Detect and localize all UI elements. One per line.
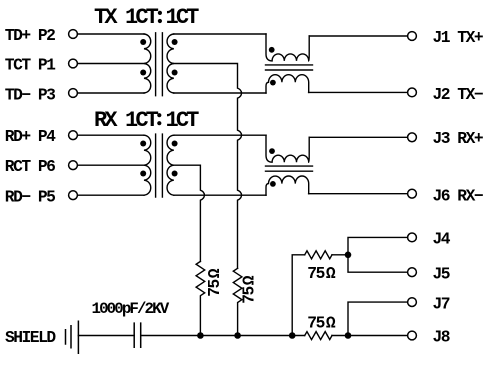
wire TX center tap down to R1 with crossover hops xyxy=(174,64,242,269)
svg-text:RX 1CT: RX 1CT xyxy=(94,108,159,133)
svg-text:J3 RX+: J3 RX+ xyxy=(433,129,483,148)
svg-text:1CT: 1CT xyxy=(166,5,200,30)
dot choke L2 top winding xyxy=(269,148,275,154)
transformer T1 primary winding xyxy=(144,34,151,93)
choke L1 core xyxy=(266,65,313,70)
wire bus node to J7 xyxy=(348,302,408,335)
terminal J8 xyxy=(408,331,417,340)
colon of TX ratio label xyxy=(158,11,162,15)
svg-text:J6 RX−: J6 RX− xyxy=(433,187,483,206)
wire R3 to J4/J5 node xyxy=(332,254,348,256)
terminal P6 xyxy=(69,161,78,170)
wire RD+ P4 to T2 primary top xyxy=(77,134,144,136)
svg-text:RD− P5: RD− P5 xyxy=(5,187,55,206)
junction node J4/J5 xyxy=(345,252,352,259)
dot T1 secondary top xyxy=(172,39,178,45)
wire TD+ P2 to T1 primary top xyxy=(77,33,144,35)
svg-text:75Ω: 75Ω xyxy=(307,264,336,283)
choke L2 bottom winding xyxy=(266,176,309,195)
wire RD- P5 to T2 primary bottom xyxy=(77,194,144,196)
svg-text:SHIELD: SHIELD xyxy=(5,328,56,347)
resistor R3 75ohm horizontal upper xyxy=(305,251,332,259)
terminal J7 xyxy=(408,298,417,307)
dot T2 secondary top xyxy=(172,141,178,147)
wire bus up to R3 xyxy=(292,255,305,336)
shield chassis symbol xyxy=(66,321,79,353)
wire T1 secondary bottom to choke L1 xyxy=(174,92,266,94)
junction node R2 bus xyxy=(234,332,241,339)
terminal P4 xyxy=(69,131,78,140)
terminal J4 xyxy=(408,233,417,242)
wire choke L2 top to J3 xyxy=(309,136,408,138)
terminal J2 xyxy=(408,88,417,97)
resistor R4 75ohm horizontal bottom xyxy=(305,332,332,340)
svg-text:75Ω: 75Ω xyxy=(239,275,258,304)
svg-text:RCT P6: RCT P6 xyxy=(5,157,55,176)
svg-text:J4: J4 xyxy=(433,230,451,249)
dot T2 primary lower xyxy=(140,171,146,177)
transformer T2 primary winding xyxy=(144,135,151,195)
wire shield to capacitor C1 xyxy=(78,335,134,337)
transformer T2 secondary winding xyxy=(167,135,174,195)
choke L1 bottom winding xyxy=(266,75,309,93)
dot T2 secondary lower xyxy=(172,171,178,177)
capacitor C1 1000pF/2KV plates xyxy=(134,323,141,347)
svg-text:75Ω: 75Ω xyxy=(307,313,336,332)
svg-text:TD− P3: TD− P3 xyxy=(5,85,55,104)
dot choke L2 bottom winding xyxy=(270,181,276,187)
resistor R1 75ohm vertical left xyxy=(196,261,205,335)
wire choke L1 bottom to J2 xyxy=(309,91,408,93)
wire T1 secondary top to choke L1 xyxy=(174,33,266,35)
wire choke L2 bottom to J6 xyxy=(309,193,408,195)
dot T1 primary lower xyxy=(140,70,146,76)
dot T1 primary top xyxy=(140,39,146,45)
svg-text:J2 TX−: J2 TX− xyxy=(433,85,483,104)
wire RCT P6 to T2 primary center tap xyxy=(77,164,144,166)
dot choke L1 bottom winding xyxy=(270,80,276,86)
svg-text:J5: J5 xyxy=(433,264,450,283)
transformer T1 secondary winding xyxy=(167,34,174,93)
wire TD- P3 to T1 primary bottom xyxy=(77,92,144,94)
terminal P5 xyxy=(69,191,78,200)
svg-text:1000pF/2KV: 1000pF/2KV xyxy=(92,300,170,318)
terminal J5 xyxy=(408,268,417,277)
wire TCT P1 to T1 primary center tap xyxy=(77,63,144,65)
choke L2 core xyxy=(266,166,313,171)
terminal J6 xyxy=(408,189,417,198)
terminal J3 xyxy=(408,133,417,142)
wire T2 secondary bottom to choke L2 xyxy=(174,194,266,196)
svg-text:J1 TX+: J1 TX+ xyxy=(433,28,483,47)
terminal P1 xyxy=(69,59,78,68)
terminal P3 xyxy=(69,89,78,98)
wire node to J5 xyxy=(348,255,408,272)
colon of RX ratio label xyxy=(157,113,161,117)
wire RX center tap down to R1 with crossover hop xyxy=(174,165,205,261)
wire R4 to J8 xyxy=(332,335,408,337)
dot T2 primary top xyxy=(140,141,146,147)
svg-text:J7: J7 xyxy=(433,294,450,313)
junction node J7 bus xyxy=(345,332,352,339)
wire node to J4 xyxy=(348,237,408,254)
terminal J1 xyxy=(408,32,417,41)
svg-text:J8: J8 xyxy=(433,328,450,347)
transformer T1 core xyxy=(156,33,163,96)
svg-text:RD+ P4: RD+ P4 xyxy=(5,127,56,146)
junction node R1 bus xyxy=(197,332,204,339)
resistor R2 75ohm vertical right xyxy=(233,268,242,335)
dot choke L1 top winding xyxy=(269,47,275,53)
svg-text:75Ω: 75Ω xyxy=(205,268,224,297)
wire ground bus from C1 to R4 xyxy=(141,335,305,337)
svg-text:TCT P1: TCT P1 xyxy=(5,56,56,75)
svg-text:TD+ P2: TD+ P2 xyxy=(5,26,55,45)
svg-text:TX 1CT: TX 1CT xyxy=(94,5,159,30)
junction node R3 branch bus xyxy=(289,332,296,339)
choke L2 top winding xyxy=(266,135,309,162)
terminal P2 xyxy=(69,30,78,39)
svg-text:1CT: 1CT xyxy=(166,108,200,133)
dot T1 secondary lower xyxy=(172,70,178,76)
transformer T2 core xyxy=(156,134,163,197)
wire choke L1 top to J1 xyxy=(309,35,408,37)
wire T2 secondary top to choke L2 xyxy=(174,134,266,136)
choke L1 top winding xyxy=(266,34,309,61)
